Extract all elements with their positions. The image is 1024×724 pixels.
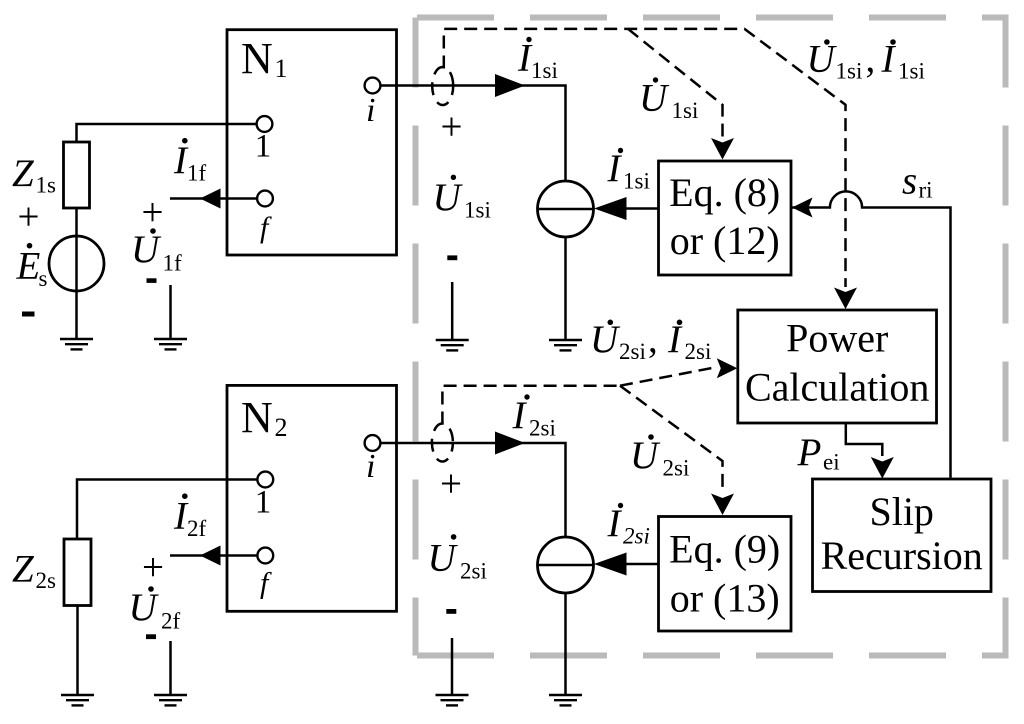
gray dashed boundary bottom edge — [417, 653, 1009, 659]
arrowhead I1si — [495, 74, 525, 97]
terminal i of N1 — [365, 78, 381, 94]
svg-text:1si: 1si — [623, 169, 650, 194]
wire Pei from Power Calculation to Slip Recursion — [846, 423, 883, 456]
svg-text:U: U — [433, 176, 464, 219]
svg-text:Eq. (8): Eq. (8) — [669, 170, 780, 215]
svg-text:,: , — [648, 318, 658, 361]
svg-text:Z: Z — [12, 548, 35, 591]
svg-text:1f: 1f — [187, 161, 207, 186]
dashed branch U2si to Eq9 — [620, 386, 723, 493]
svg-text:U: U — [630, 434, 661, 477]
controlled current source 2 — [538, 537, 594, 593]
svg-text:ei: ei — [823, 450, 840, 475]
minus of U2si — [446, 609, 456, 614]
svg-text:s: s — [39, 266, 48, 291]
svg-text:U: U — [807, 38, 838, 81]
wire I2si from terminal i to source 2 — [380, 443, 565, 537]
svg-text:U: U — [131, 228, 162, 271]
two-port network N1 box — [227, 30, 397, 255]
svg-text:1f: 1f — [163, 251, 183, 276]
gray dashed boundary left edge — [413, 18, 419, 656]
svg-text:+: + — [440, 463, 462, 506]
svg-text:ri: ri — [919, 178, 933, 203]
wire sri from Slip Recursion to Eq8 with crossover hop — [791, 191, 951, 477]
voltage source Es — [49, 236, 104, 291]
terminal f of N2 — [257, 548, 273, 564]
arrowhead dashed U2si into Eq9 top — [711, 494, 734, 516]
svg-text:P: P — [797, 431, 822, 474]
dashed measuring ellipse section 1 — [432, 67, 453, 105]
ground below U1si — [436, 340, 469, 350]
svg-text:1: 1 — [255, 485, 272, 521]
svg-text:+: + — [142, 546, 164, 589]
svg-text:+: + — [18, 196, 40, 239]
svg-text:or (12): or (12) — [670, 218, 780, 263]
svg-text:i: i — [366, 92, 375, 129]
svg-text:Slip: Slip — [869, 489, 933, 534]
svg-text:I: I — [607, 502, 623, 545]
dashed measurement tap U2si,I2si trunk — [442, 386, 620, 425]
svg-text:2si: 2si — [685, 339, 712, 364]
wire source 1 to ground — [564, 237, 567, 340]
svg-text:Z: Z — [12, 152, 35, 195]
svg-text:1: 1 — [275, 54, 288, 83]
terminal 1 of N2 — [257, 472, 273, 488]
svg-text:,: , — [866, 38, 876, 81]
svg-text:N: N — [241, 393, 273, 442]
block Power Calculation — [738, 310, 937, 423]
block Slip Recursion — [813, 479, 992, 592]
terminal 1 of N1 — [257, 116, 273, 132]
svg-text:I: I — [607, 147, 623, 190]
dashed branch U2si,I2si to Power Calculation — [620, 368, 714, 386]
svg-text:Power: Power — [786, 316, 888, 361]
ground below U2si — [436, 695, 469, 705]
arrowhead dashed U2si,I2si into Power Calculation left edge — [717, 358, 738, 378]
wire U2f reference to ground — [169, 641, 172, 695]
dashed measuring ellipse section 2 — [432, 424, 453, 462]
arrowhead dashed U1si into Eq8 top — [711, 138, 734, 160]
svg-text:2f: 2f — [161, 609, 181, 634]
svg-text:1si: 1si — [836, 59, 863, 84]
block Eq (9) or (13) — [659, 517, 792, 632]
terminal f of N1 — [257, 191, 273, 207]
svg-text:2si: 2si — [623, 524, 650, 549]
wire source 2 to ground — [564, 593, 567, 695]
controlled current source 1 — [538, 181, 594, 237]
svg-text:1s: 1s — [36, 173, 57, 198]
resistor Z2s — [64, 539, 91, 606]
arrowhead sri into Eq8 right edge — [792, 198, 813, 218]
ground below U1f — [154, 339, 187, 349]
wire Eq9 output to source 2 — [626, 563, 659, 566]
ground below U2f — [154, 695, 187, 705]
block Eq (8) or (12) — [659, 161, 792, 275]
svg-text:E: E — [16, 244, 41, 287]
svg-text:Recursion: Recursion — [821, 533, 983, 578]
svg-text:1si: 1si — [464, 198, 491, 223]
svg-text:2f: 2f — [187, 516, 207, 541]
wire U1f reference to ground — [169, 285, 172, 339]
dashed branch U1si to Eq8 — [628, 29, 723, 137]
svg-text:1: 1 — [255, 129, 272, 165]
two-port network N2 box — [227, 385, 397, 611]
wire N2 terminal 1 to Z2s — [77, 480, 257, 540]
wire I1si from terminal i to source 1 — [380, 86, 565, 182]
svg-text:2: 2 — [275, 413, 288, 442]
ground below Z2s — [61, 695, 94, 705]
wire U1si reference to ground — [451, 282, 454, 340]
svg-text:U: U — [129, 586, 160, 629]
wire N1 terminal 1 to Z1s — [77, 124, 257, 142]
svg-text:2si: 2si — [529, 416, 556, 441]
minus of source Es — [22, 312, 35, 317]
wire Eq8 output to source 1 — [626, 207, 659, 210]
wire U2si reference to ground — [451, 638, 454, 695]
ground below Es — [60, 339, 93, 349]
arrowhead I2si — [495, 432, 525, 455]
arrowhead dashed into Power Calculation top — [834, 288, 857, 310]
svg-text:1si: 1si — [531, 58, 558, 83]
gray dashed boundary right edge — [1003, 18, 1009, 656]
svg-text:+: + — [441, 105, 463, 148]
svg-text:N: N — [241, 34, 273, 83]
terminal i of N2 — [365, 435, 381, 451]
minus of U1f — [147, 278, 157, 283]
svg-text:I: I — [512, 394, 528, 437]
svg-text:2si: 2si — [663, 456, 690, 481]
dashed measurement tap U1si,I1si to Power Calculation — [444, 29, 846, 287]
ground below source 2 — [549, 695, 582, 705]
svg-text:2si: 2si — [460, 559, 487, 584]
svg-text:Calculation: Calculation — [745, 365, 929, 410]
minus of U1si — [447, 255, 457, 260]
svg-text:1si: 1si — [898, 59, 925, 84]
svg-text:or (13): or (13) — [670, 576, 780, 621]
svg-text:U: U — [590, 318, 621, 361]
current arrow I1f — [170, 197, 257, 200]
gray dashed boundary top edge — [417, 15, 1009, 21]
wire Z2s to ground — [76, 606, 79, 696]
svg-text:2si: 2si — [619, 339, 646, 364]
ground below source 1 — [549, 340, 582, 350]
svg-text:U: U — [639, 76, 670, 119]
wire Z1s to source Es and ground — [75, 208, 78, 339]
resistor Z1s — [64, 142, 90, 208]
svg-text:2s: 2s — [36, 568, 57, 593]
svg-text:i: i — [366, 448, 375, 485]
svg-text:s: s — [902, 160, 917, 203]
svg-text:U: U — [428, 537, 459, 580]
minus of U2f — [146, 634, 156, 639]
svg-text:Eq. (9): Eq. (9) — [669, 527, 780, 572]
current arrow I2f — [170, 554, 257, 557]
svg-text:1si: 1si — [672, 98, 699, 123]
